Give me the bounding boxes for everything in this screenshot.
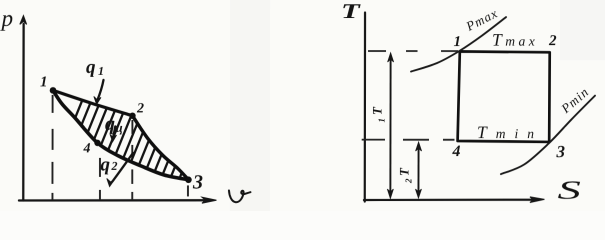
svg-text:T: T [341, 0, 361, 23]
svg-text:ц: ц [115, 120, 122, 135]
svg-text:1: 1 [454, 34, 462, 50]
svg-text:4: 4 [451, 143, 460, 160]
svg-text:1: 1 [40, 74, 48, 90]
svg-text:3: 3 [192, 171, 203, 193]
svg-text:q: q [100, 154, 110, 175]
svg-text:q: q [86, 57, 96, 78]
svg-text:4: 4 [82, 141, 90, 156]
svg-text:T: T [369, 106, 384, 115]
svg-text:1: 1 [376, 118, 386, 123]
svg-text:2: 2 [136, 101, 144, 116]
svg-text:p: p [0, 6, 13, 31]
svg-text:3: 3 [555, 142, 565, 161]
svg-text:1: 1 [98, 64, 104, 78]
svg-text:T: T [396, 167, 411, 176]
svg-text:q: q [105, 113, 115, 135]
svg-text:2: 2 [403, 178, 413, 184]
svg-text:2: 2 [110, 159, 117, 173]
svg-text:S: S [557, 176, 580, 205]
svg-text:2: 2 [548, 33, 557, 49]
